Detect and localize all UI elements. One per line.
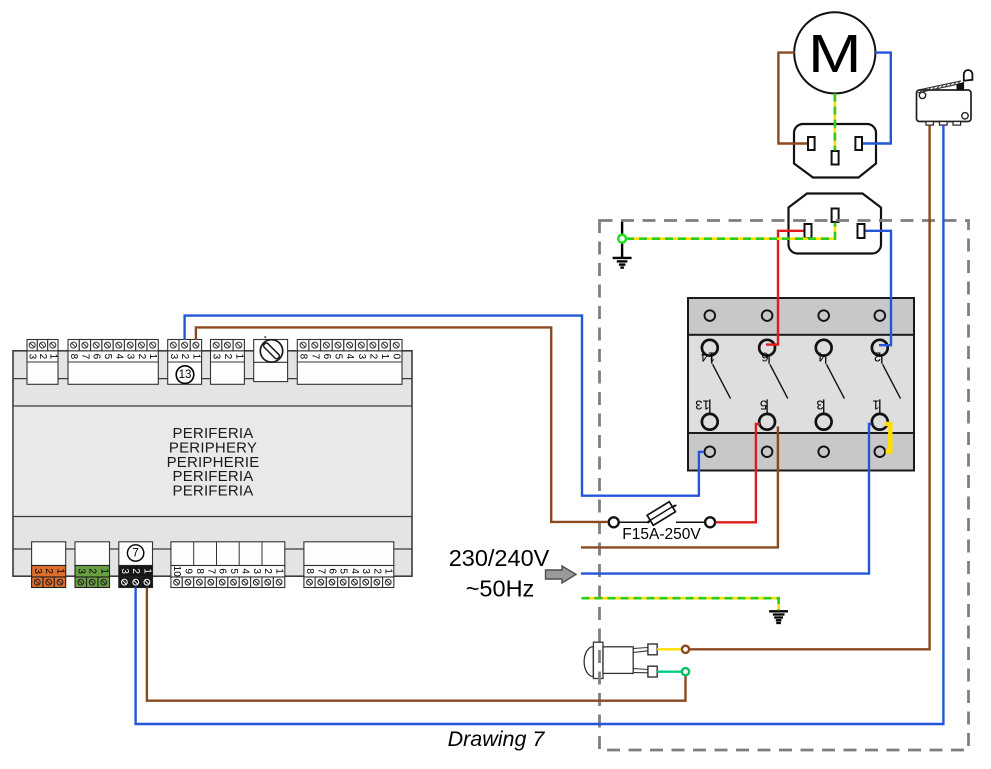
svg-text:2: 2: [371, 568, 382, 574]
terminal block X13 (3-2-1): [168, 340, 202, 385]
dashed enclosure boundary: [600, 221, 969, 751]
svg-text:8: 8: [68, 354, 79, 360]
svg-text:2: 2: [130, 568, 141, 574]
wire red: fuse to relay contact 5: [716, 424, 761, 522]
J1 pin PE: [832, 209, 839, 223]
svg-text:M: M: [808, 23, 862, 84]
terminal block X1 (3-2-1): [27, 340, 59, 385]
PLC label text PERIFERIA / PERIPHERY / PERIPHERIE: [167, 425, 260, 499]
green terminal block (3-2-1): [75, 542, 110, 588]
wire teal: lamp pin 2 to node: [657, 671, 681, 673]
svg-text:3: 3: [32, 568, 43, 574]
wire blue: inlet pin N to relay contact 2: [866, 231, 892, 345]
svg-text:6: 6: [321, 354, 332, 360]
terminal block (10..1): [171, 542, 285, 588]
lamp wire node 2 (green ring): [682, 668, 689, 675]
S1 lever: [918, 81, 961, 93]
relay pole 1: contacts 14/13: [695, 310, 730, 457]
svg-text:5: 5: [760, 398, 767, 413]
svg-text:230/240V: 230/240V: [449, 545, 550, 571]
svg-text:6: 6: [217, 568, 228, 574]
fuse F1 holder terminals: [609, 500, 715, 543]
S1 roller: [964, 70, 973, 81]
svg-text:5: 5: [333, 354, 344, 360]
terminal block X2 (8..1): [68, 340, 158, 385]
svg-text:8: 8: [298, 354, 309, 360]
wire blue: PLC X7-2 to microswitch pin 2: [136, 125, 944, 724]
svg-text:8: 8: [194, 568, 205, 574]
svg-text:3: 3: [360, 568, 371, 574]
wire red: inlet pin L to relay contact 6: [766, 231, 804, 345]
svg-text:2: 2: [874, 350, 881, 365]
terminal block (8..1): [304, 542, 394, 588]
wire brown: PLC X7-1 to lamp node 2: [147, 588, 686, 701]
svg-text:2: 2: [37, 354, 48, 360]
svg-text:3: 3: [816, 398, 823, 413]
svg-text:2: 2: [222, 354, 233, 360]
svg-text:3: 3: [356, 354, 367, 360]
P1 pin N: [855, 137, 862, 150]
svg-text:5: 5: [102, 354, 113, 360]
svg-text:7: 7: [205, 568, 216, 574]
svg-text:3: 3: [168, 354, 179, 360]
svg-text:3: 3: [27, 354, 38, 360]
lamp pin 2: [633, 669, 648, 670]
lamp wire node 1 (brown ring): [682, 646, 689, 653]
svg-text:4: 4: [113, 354, 124, 360]
svg-text:6: 6: [91, 354, 102, 360]
IEC appliance plug P1: [794, 124, 876, 178]
svg-text:F15A-250V: F15A-250V: [622, 526, 701, 543]
relay pole 2: contacts 6/5: [759, 310, 788, 457]
svg-text:6: 6: [327, 568, 338, 574]
wire brown: lamp node to microswitch pin 1: [690, 125, 930, 649]
svg-text:1: 1: [141, 568, 152, 574]
PLC module body: [13, 351, 412, 576]
svg-text:1: 1: [98, 568, 109, 574]
svg-text:2: 2: [136, 354, 147, 360]
svg-text:14: 14: [701, 350, 715, 365]
svg-text:3: 3: [119, 568, 130, 574]
svg-text:1: 1: [233, 354, 244, 360]
svg-text:1: 1: [190, 354, 201, 360]
svg-text:3: 3: [211, 354, 222, 360]
svg-text:1: 1: [55, 568, 66, 574]
circled label 13: [176, 366, 194, 384]
svg-text:1: 1: [274, 568, 285, 574]
svg-text:5: 5: [338, 568, 349, 574]
svg-text:2: 2: [367, 354, 378, 360]
svg-text:7: 7: [315, 568, 326, 574]
svg-text:1: 1: [147, 354, 158, 360]
svg-text:2: 2: [262, 568, 273, 574]
svg-text:10: 10: [171, 566, 182, 578]
svg-text:4: 4: [818, 350, 825, 365]
wire blue: mains N feed to relay contact 1: [581, 424, 872, 574]
S1 pins: [926, 122, 933, 126]
svg-text:1: 1: [872, 398, 879, 413]
wire brown: mains L feed to relay contact 5: [581, 427, 778, 548]
wire green/yellow PE: mains earth feed: [582, 598, 779, 610]
svg-text:4: 4: [344, 354, 355, 360]
terminal block X4 (3-2-1): [211, 340, 245, 385]
wire blue: PLC X13-2 to relay coil A1: [185, 316, 704, 496]
P1 pin PE: [832, 151, 839, 165]
svg-text:4: 4: [239, 568, 250, 574]
svg-text:3: 3: [75, 568, 86, 574]
svg-text:2: 2: [43, 568, 54, 574]
IEC appliance inlet J1: [789, 194, 882, 254]
wire green/yellow PE: motor to plug pin PE: [834, 94, 837, 151]
wire blue: motor to plug pin N: [863, 53, 891, 144]
mains feed arrow: [546, 566, 577, 583]
lamp pin 1: [633, 648, 648, 649]
svg-text:4: 4: [349, 568, 360, 574]
rotary address switch: [254, 336, 288, 381]
svg-text:3: 3: [125, 354, 136, 360]
motor M1: [794, 12, 875, 93]
P1 pin L: [808, 137, 815, 150]
svg-text:1: 1: [379, 354, 390, 360]
wire yellow: lamp pin 1 to node: [657, 648, 681, 650]
microswitch S1: [917, 70, 973, 125]
svg-text:1: 1: [383, 568, 394, 574]
svg-text:7: 7: [132, 547, 138, 559]
svg-text:5: 5: [228, 568, 239, 574]
relay pole 4: contacts 2/1: [872, 310, 901, 457]
relay contactor block: [688, 298, 914, 471]
svg-text:8: 8: [304, 568, 315, 574]
indicator lamp H1: [584, 642, 657, 678]
svg-text:3: 3: [251, 568, 262, 574]
wire green/yellow PE: earth to inlet pin PE: [626, 223, 835, 239]
svg-text:9: 9: [183, 568, 194, 574]
svg-text:2: 2: [87, 568, 98, 574]
svg-text:0: 0: [391, 354, 402, 360]
J1 pin N: [858, 224, 865, 238]
svg-text:7: 7: [79, 354, 90, 360]
fuse F1 cartridge: [644, 500, 678, 527]
protective earth symbol PE2: [769, 611, 788, 623]
svg-text:7: 7: [309, 354, 320, 360]
svg-text:~50Hz: ~50Hz: [466, 576, 535, 602]
wire yellow jumper: relay contact 1 to coil A2: [885, 424, 891, 452]
svg-text:1: 1: [47, 354, 58, 360]
svg-text:PERIFERIA: PERIFERIA: [173, 482, 254, 499]
svg-text:6: 6: [761, 350, 768, 365]
relay pole 3: contacts 4/3: [816, 310, 845, 457]
black terminal block X7 (3-2-1): [119, 542, 153, 588]
svg-text:Drawing 7: Drawing 7: [448, 727, 546, 751]
orange terminal block (3-2-1): [32, 542, 66, 588]
svg-text:13: 13: [179, 369, 192, 381]
wire brown: motor to plug pin L: [778, 53, 807, 144]
earth node at PE1: [618, 235, 626, 243]
svg-text:13: 13: [695, 398, 709, 413]
wire brown: PLC X13-1 to fuse: [196, 327, 608, 522]
svg-text:2: 2: [179, 354, 190, 360]
J1 pin L: [805, 224, 812, 238]
protective earth symbol PE1: [613, 221, 632, 268]
terminal block X6 (8..0): [297, 340, 402, 385]
circled label 7: [127, 545, 143, 561]
